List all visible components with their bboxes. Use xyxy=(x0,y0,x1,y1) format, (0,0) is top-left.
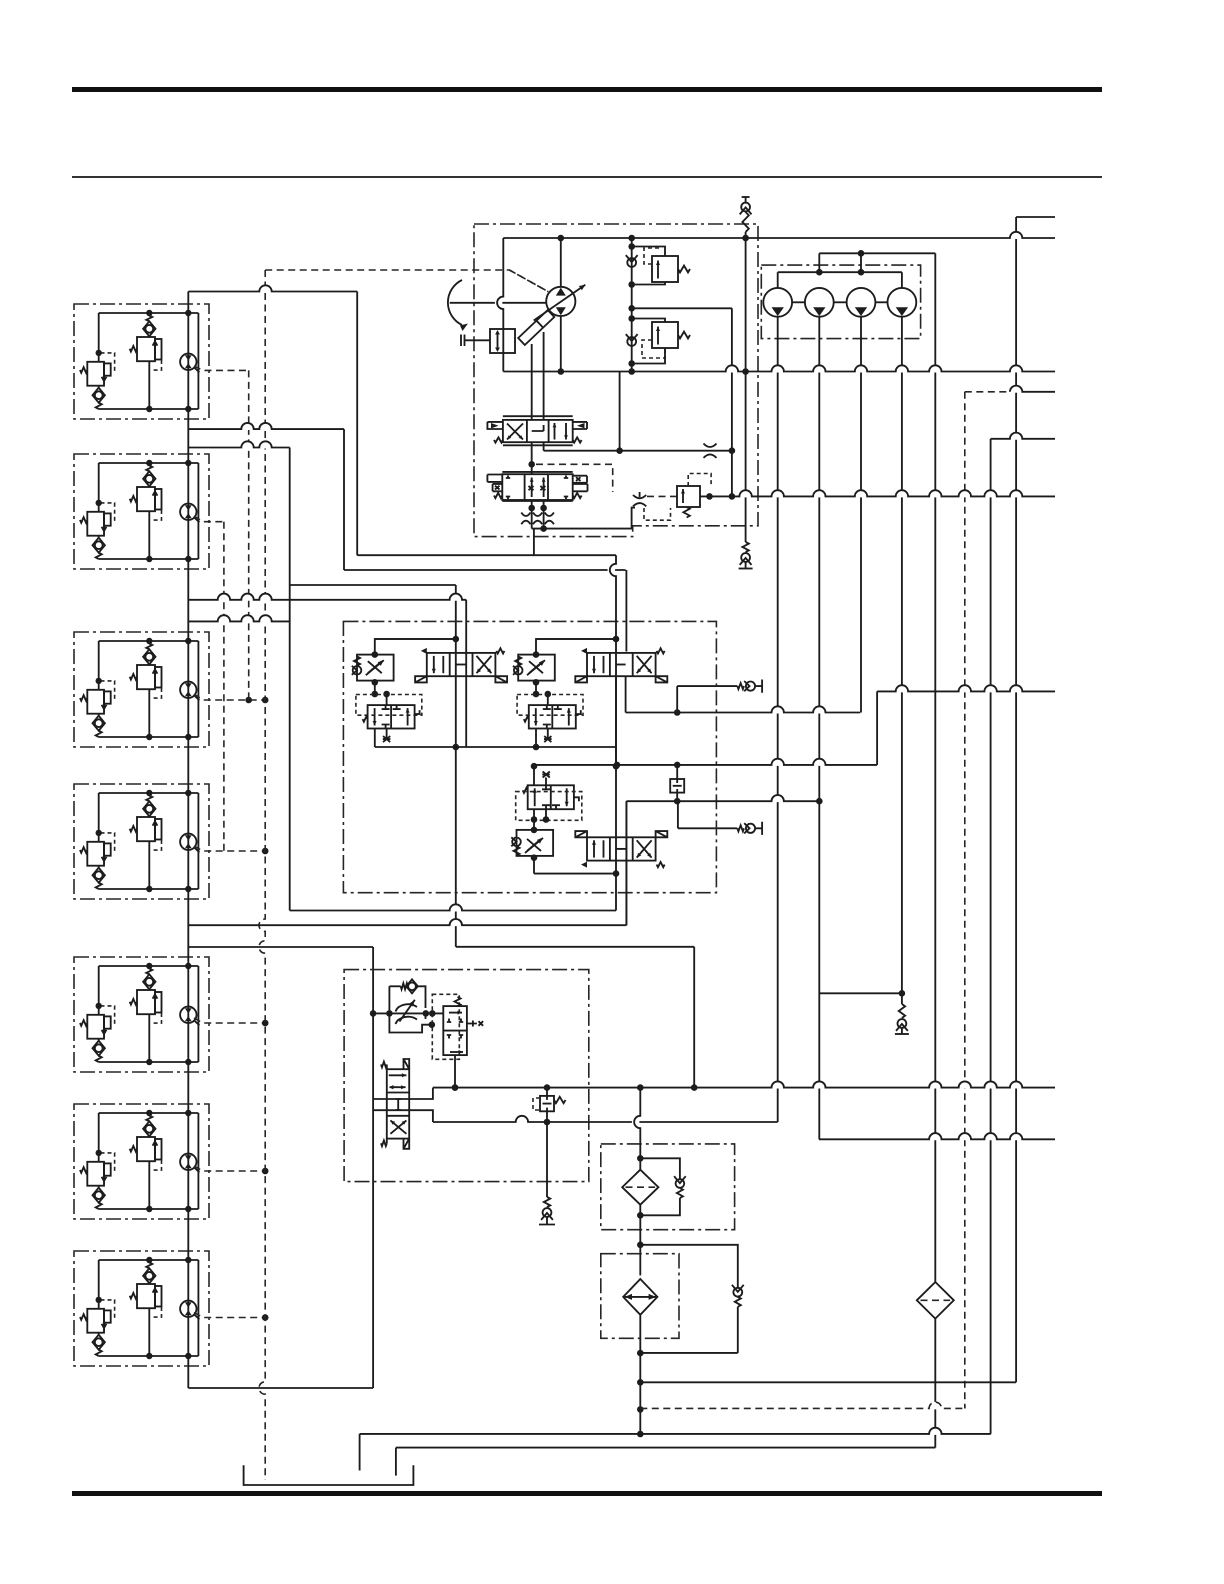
pilot line block6 xyxy=(194,1166,265,1171)
riser x1016 xyxy=(1015,217,1017,1382)
wire M4 to M2 xyxy=(819,992,902,994)
suction strainer element xyxy=(623,1279,657,1315)
sub-circuit bottom rail y747 xyxy=(375,746,616,748)
cooler bypass strainer xyxy=(917,1282,954,1319)
riser x731 xyxy=(731,308,733,496)
travel motor brake valve block 7 xyxy=(74,1251,209,1366)
riser x619 xyxy=(619,372,621,451)
case drain riser x745 xyxy=(745,238,747,542)
gear motor M2 xyxy=(805,288,834,317)
pump inner box left wire xyxy=(495,295,502,310)
flow control sub-circuit right xyxy=(536,639,617,655)
riser x694 to return rail xyxy=(693,947,695,1088)
priority valve outlet xyxy=(454,1055,456,1088)
pump drive shaft xyxy=(450,302,547,304)
page bottom rule xyxy=(72,1491,1102,1496)
valve V2 feed riser xyxy=(625,570,627,652)
return filter element xyxy=(622,1170,658,1205)
feeder wire y429 xyxy=(240,423,255,431)
wire relief to x731 xyxy=(632,307,732,309)
fan flow control valve xyxy=(389,985,400,987)
valve V2 lower port risers xyxy=(615,676,617,766)
wire y947 east xyxy=(456,946,694,948)
wire riser x289 xyxy=(289,448,291,911)
regulator drain wire xyxy=(532,508,635,529)
load sense dashed link xyxy=(532,446,613,492)
return rail B xyxy=(724,365,739,373)
travel motor brake valve block 3 xyxy=(74,632,209,747)
riser x373 to lower group xyxy=(372,947,374,1388)
flow control feed wire xyxy=(373,1012,443,1014)
filter to strainer wire xyxy=(639,1205,641,1254)
wire riser x466 xyxy=(465,600,467,747)
pilot dashed rail to pump regulator xyxy=(265,270,548,292)
orifice block xyxy=(670,779,684,793)
bottom left return wire xyxy=(188,1387,373,1389)
wire y947 west xyxy=(188,946,373,948)
return rail J xyxy=(770,1081,785,1089)
feeder wire y621 xyxy=(216,615,231,622)
rail C dashed pilot xyxy=(965,391,1010,393)
directional control valve V3 xyxy=(587,837,656,860)
feeder wire y599 xyxy=(216,593,231,600)
gear motor M1 xyxy=(763,288,792,317)
riser x990 xyxy=(990,439,992,1434)
main pump group dash-dot enclosure xyxy=(474,224,758,537)
fan rail K xyxy=(514,1115,529,1122)
feed wire y639 right xyxy=(536,638,616,640)
page top rule xyxy=(72,87,1102,92)
low pressure relief valve xyxy=(546,1088,548,1096)
rail G xyxy=(770,706,785,714)
make-up check top right xyxy=(742,196,750,198)
riser x877 xyxy=(876,691,878,765)
rail F xyxy=(894,685,909,693)
motor M2 riser xyxy=(818,317,820,1140)
rail A2 stub xyxy=(1016,216,1055,218)
pilot dashed link to swashplate xyxy=(509,270,548,292)
gear motor M3 xyxy=(847,288,876,317)
fan motor group dash-dot enclosure xyxy=(761,265,920,339)
left main riser wire xyxy=(187,292,189,1389)
air breather xyxy=(640,1245,738,1288)
return check to tank xyxy=(546,1122,548,1197)
rail D xyxy=(1009,432,1024,440)
pilot line block4 xyxy=(194,846,265,851)
hydraulic tank xyxy=(244,1465,414,1485)
anti-cavitation check upper xyxy=(676,686,678,712)
motor manifold wires xyxy=(792,301,805,303)
rail E xyxy=(738,490,753,497)
supply rail A xyxy=(1009,231,1024,238)
throttle orifice xyxy=(704,444,717,458)
wire H1 y910 xyxy=(448,904,463,911)
pilot line block3 xyxy=(194,694,265,700)
variable displacement pump P1 xyxy=(546,287,575,316)
strainer wires xyxy=(639,1254,641,1276)
fan valve group dash-dot enclosure xyxy=(344,970,589,1182)
pilot throttle wire y450 xyxy=(544,450,732,452)
wire block1 feed y291 xyxy=(258,285,273,293)
riser x626 lower xyxy=(625,801,627,925)
fan supply riser x935 xyxy=(934,253,936,1282)
fan solenoid valve xyxy=(387,1069,409,1138)
return filter dash-dot enclosure xyxy=(601,1144,735,1230)
regulator riser wires xyxy=(531,344,533,420)
lower flow sub-circuit xyxy=(533,766,535,785)
rail I xyxy=(770,795,785,803)
rail L xyxy=(928,1133,943,1141)
directional control valve V1 xyxy=(427,653,496,676)
riser x455 through valve box xyxy=(455,585,457,947)
travel motor brake valve block 6 xyxy=(74,1104,209,1219)
priority valve stack xyxy=(443,1006,467,1055)
check ball upper xyxy=(627,258,636,267)
servo piston xyxy=(490,329,515,353)
pump swash plate xyxy=(518,310,554,345)
feeder wire y447 xyxy=(240,441,255,448)
pilot line block5 xyxy=(194,1018,265,1023)
riser x616 through valve box xyxy=(608,563,616,578)
main pilot dashed column xyxy=(259,270,265,1480)
pilot line block1 xyxy=(194,366,249,370)
cross wire y555 xyxy=(357,554,616,556)
feed wire y639 left xyxy=(375,638,456,640)
suction strainer dash-dot enclosure xyxy=(601,1254,679,1339)
solenoid valve port wires xyxy=(373,1088,433,1099)
check ball lower xyxy=(627,337,636,346)
fan case drain check xyxy=(901,993,903,1004)
control valve group dash-dot enclosure xyxy=(343,621,716,892)
drive rotation arrow xyxy=(448,280,462,325)
gear motor M4 xyxy=(888,288,917,317)
pilot dashed riser from block1 xyxy=(248,370,250,700)
cross wire y585 xyxy=(290,584,456,586)
rail R xyxy=(928,1427,943,1434)
load sense dashed network xyxy=(644,495,677,497)
pilot dashed riser x964 xyxy=(964,392,966,1409)
travel motor brake valve block 4 xyxy=(74,784,209,899)
pump relief valve 2 xyxy=(632,319,665,323)
page header rule xyxy=(72,176,1102,178)
priority valve dashed box xyxy=(432,994,459,1059)
pump relief valve 1 xyxy=(632,247,665,257)
filter column wire xyxy=(632,1115,640,1130)
rail P xyxy=(640,1381,1016,1383)
filter bypass check xyxy=(637,1155,644,1162)
pump regulator valve stage 1 xyxy=(503,416,573,445)
travel motor brake valve block 1 xyxy=(74,304,209,419)
pilot dashed riser from block2 xyxy=(223,522,225,851)
case drain check to tank xyxy=(742,542,748,552)
dashed rail Q xyxy=(928,1402,943,1409)
valve V3 riser xyxy=(625,801,627,925)
pump regulator valve stage 2 xyxy=(502,472,572,501)
motor M3 riser xyxy=(860,317,862,713)
travel motor brake valve block 5 xyxy=(74,957,209,1072)
wire riser x357 xyxy=(356,292,358,556)
motor M1 riser xyxy=(777,317,779,1122)
flow control sub-circuit left xyxy=(375,639,456,655)
rail H xyxy=(770,758,785,765)
pilot line block2 xyxy=(194,516,224,522)
cross wire y570 xyxy=(344,569,626,571)
pilot line block7 xyxy=(194,1313,265,1318)
travel motor brake valve block 2 xyxy=(74,454,209,569)
regulator drain orifices xyxy=(521,513,530,517)
wire riser x344 xyxy=(343,429,345,570)
directional control valve V2 xyxy=(587,653,656,676)
motor M4 riser xyxy=(901,317,903,994)
breather return wire xyxy=(640,1352,738,1354)
wire M y925 xyxy=(448,919,463,926)
relief column wire xyxy=(631,238,633,372)
anti-cavitation check lower xyxy=(677,801,679,828)
rail S xyxy=(396,1447,935,1449)
system relief valve at rail E xyxy=(677,486,700,507)
